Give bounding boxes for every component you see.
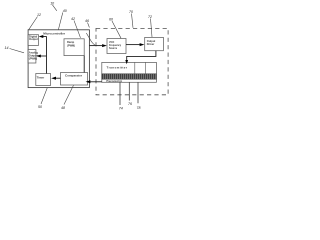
comparator box — [61, 73, 88, 86]
leader for 70 — [132, 14, 134, 28]
svg-text:12: 12 — [37, 13, 41, 17]
svg-text:78: 78 — [137, 106, 141, 110]
electrode lead a — [119, 82, 121, 105]
svg-text:Transmitter: Transmitter — [107, 65, 128, 69]
svg-text:50: 50 — [38, 105, 42, 109]
arrowhead into analog output — [36, 55, 41, 58]
svg-text:42: 42 — [71, 17, 75, 21]
svg-text:Output: Output — [29, 37, 38, 41]
svg-text:74: 74 — [119, 107, 123, 111]
svg-text:46: 46 — [85, 19, 89, 23]
leader for 50 — [41, 88, 47, 104]
analog output box — [28, 50, 36, 63]
svg-text:10: 10 — [50, 1, 54, 5]
svg-text:Comparator: Comparator — [65, 74, 83, 78]
digital output box — [28, 35, 38, 46]
timer box — [36, 74, 51, 86]
output driver box — [145, 37, 164, 50]
svg-text:70: 70 — [129, 10, 133, 14]
svg-text:48: 48 — [61, 106, 65, 110]
arrowhead into timer — [51, 77, 56, 80]
dashed enclosure — [96, 28, 168, 94]
VCO box — [107, 39, 126, 54]
driver to transducer wire — [127, 51, 156, 61]
wire to analog output — [38, 55, 47, 57]
leader for 12 — [29, 17, 38, 30]
mcu to VCO wire — [89, 45, 102, 47]
arrowhead into comparator (feedback) — [86, 80, 91, 83]
electrode lead b — [128, 82, 130, 100]
piezo hatched element — [102, 74, 157, 79]
leader for 40 — [58, 13, 62, 30]
svg-text:Timer: Timer — [37, 75, 45, 79]
comparator to timer wire — [56, 77, 61, 79]
svg-text:Output: Output — [147, 39, 156, 43]
ramp (PWM) box — [64, 39, 84, 56]
leader for 72 — [151, 19, 153, 38]
leader for 60 — [112, 21, 121, 38]
svg-text:Microcontroller: Microcontroller — [43, 31, 66, 35]
feedback wire — [91, 81, 102, 83]
svg-text:14: 14 — [5, 46, 9, 50]
bus wire vertical — [46, 36, 48, 73]
svg-text:(PWM): (PWM) — [67, 43, 75, 47]
svg-text:72: 72 — [148, 15, 152, 19]
arrowhead into transducer — [125, 60, 128, 64]
transducer internal dividers — [135, 62, 146, 74]
arrowhead into driver — [140, 43, 145, 46]
svg-text:Source: Source — [109, 47, 118, 50]
leader for 14 — [10, 49, 25, 53]
svg-text:(PWM): (PWM) — [29, 57, 37, 61]
svg-text:76: 76 — [128, 102, 132, 106]
svg-text:60: 60 — [109, 18, 113, 22]
leader for 10 — [52, 5, 56, 11]
wire to digital output — [41, 36, 47, 38]
arrowhead into VCO — [102, 44, 107, 47]
VCO to driver wire — [126, 44, 140, 46]
ramp to comparator wire — [83, 56, 85, 73]
transducer box — [102, 62, 157, 82]
leader for 48 — [64, 85, 74, 104]
leader for 46 — [86, 23, 96, 46]
microcontroller box — [28, 30, 89, 88]
leader for 42 — [74, 21, 81, 38]
electrode lead c — [137, 82, 139, 103]
svg-text:Driver: Driver — [147, 42, 155, 46]
arrowhead into digital output — [39, 35, 44, 38]
svg-text:40: 40 — [63, 9, 67, 13]
